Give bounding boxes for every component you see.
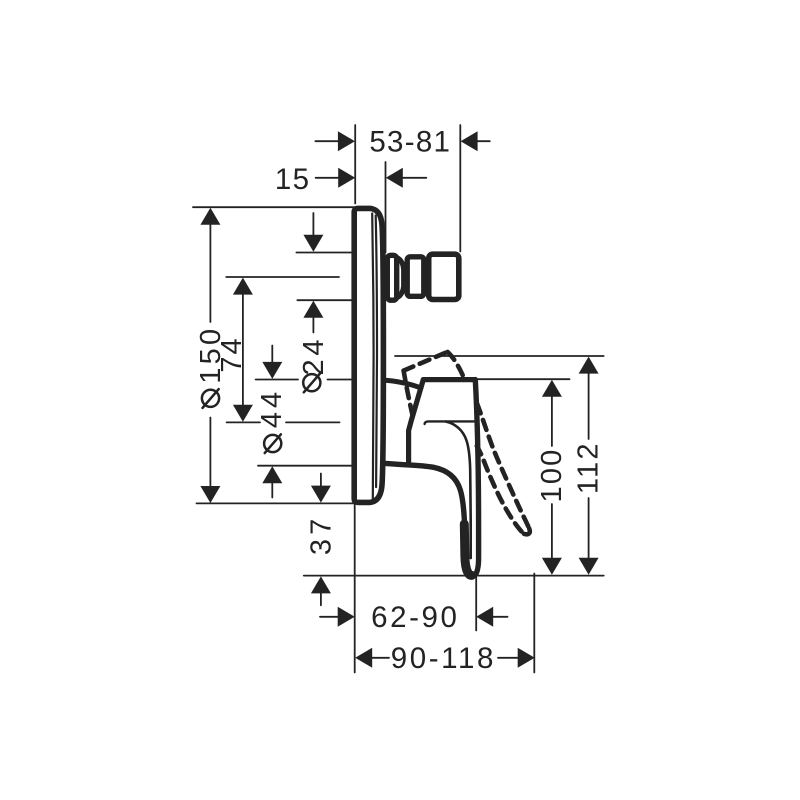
valve mid cylinder [407, 257, 424, 297]
dim 74 line [242, 292, 244, 407]
dim 100 line [551, 394, 553, 560]
svg-text:53-81: 53-81 [369, 125, 451, 158]
Ø symbol of Ø150 [202, 390, 219, 407]
dim 62-90 left arrow [320, 616, 338, 618]
handle underside and lever outline [384, 380, 479, 577]
plate face contour line 1 [372, 214, 373, 501]
svg-text:62-90: 62-90 [371, 601, 459, 634]
extension line bottom right [304, 575, 604, 577]
dashed lever inner curve [477, 446, 522, 532]
extension line plate bottom [197, 502, 355, 504]
extension line plate top [193, 206, 354, 208]
extension line plate-front top [385, 162, 387, 253]
extension line valve top [296, 252, 352, 254]
lever tip dark fill [464, 524, 471, 575]
extension line valve-end top [459, 125, 461, 252]
valve cone taper [397, 258, 404, 298]
svg-text:15: 15 [275, 163, 310, 196]
extension line handle top right [477, 378, 570, 380]
svg-text:37: 37 [306, 514, 338, 555]
svg-text:100: 100 [536, 448, 568, 503]
extension line lever-tip bottom [475, 577, 477, 631]
plate face contour line 2 [376, 216, 377, 488]
Ø symbol of Ø44 [264, 435, 281, 452]
svg-text:24: 24 [298, 336, 330, 376]
valve flange [387, 255, 396, 300]
extension line plate-back bottom [354, 504, 356, 673]
dim 15 left arrow [316, 177, 339, 179]
escutcheon plate outline [354, 208, 383, 502]
dim Ø44 arrows [271, 346, 273, 498]
dim 62-90 right arrow [493, 616, 508, 618]
valve end cap [429, 254, 459, 299]
dim 90-118 line left arrow [372, 657, 389, 659]
Ø symbol of Ø24 [303, 374, 320, 391]
extension line dashed-tip bottom [533, 574, 535, 673]
dim 90-118 line right arrow [498, 657, 518, 659]
dim 37 arrows [320, 474, 322, 606]
handle inner line [425, 421, 474, 424]
svg-text:112: 112 [573, 441, 605, 494]
dashed lever outer curve [477, 404, 529, 529]
svg-text:44: 44 [256, 388, 288, 428]
extension line plate-back top [354, 125, 356, 204]
handle inner curve [446, 422, 471, 558]
extension line handle top left [256, 379, 352, 381]
extension line valve bottom [297, 299, 352, 301]
dim Ø24 arrows [312, 213, 314, 333]
handle body left edge [409, 380, 424, 464]
extension line dashed-handle top right [395, 355, 604, 357]
svg-text:74: 74 [216, 336, 248, 372]
handle collar top edge [384, 380, 421, 388]
dim 112 line [588, 371, 590, 560]
dim 15 right arrow [402, 177, 426, 179]
dashed handle left edge [404, 371, 414, 419]
dim Ø150 line [209, 222, 211, 488]
extension line lever pivot [227, 421, 340, 423]
svg-text:90-118: 90-118 [391, 642, 496, 675]
extension line valve centerline [226, 276, 339, 278]
extension line handle bottom [258, 465, 353, 467]
dashed lever tip [522, 529, 530, 535]
dashed handle right edge [448, 352, 464, 377]
dim 53-81 right arrow [477, 140, 490, 142]
dashed handle top edge [404, 352, 448, 371]
handle body top edge [423, 377, 475, 382]
dim 53-81 left arrow [315, 140, 338, 142]
